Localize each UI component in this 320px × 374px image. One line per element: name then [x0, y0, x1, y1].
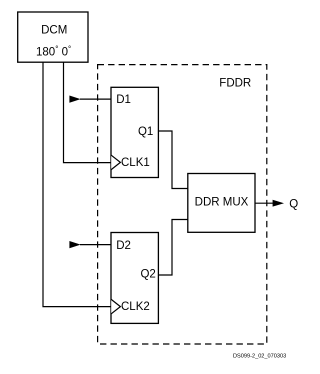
arrowhead D2 input: [69, 241, 80, 248]
wire Q1 to DDR MUX: [158, 131, 187, 189]
svg-text:D2: D2: [116, 240, 131, 252]
clock triangle FF1: [111, 155, 120, 169]
block DCM: [18, 12, 88, 62]
arrowhead D1 input: [69, 96, 80, 103]
svg-text:DCM: DCM: [41, 25, 67, 37]
wire Q2 to DDR MUX: [158, 220, 187, 276]
svg-text:DDR MUX: DDR MUX: [195, 196, 249, 208]
flip-flop FF2: [111, 233, 158, 324]
svg-text:180° 0°: 180° 0°: [36, 45, 71, 59]
wire D2 input: [80, 244, 111, 246]
svg-text:CLK2: CLK2: [121, 301, 150, 313]
svg-text:D1: D1: [116, 94, 131, 106]
wire DCM 0 output to CLK1: [64, 62, 111, 163]
svg-text:Q: Q: [289, 199, 298, 211]
flip-flop FF1: [111, 87, 158, 177]
svg-text:CLK1: CLK1: [121, 157, 150, 169]
wire Q output: [255, 202, 274, 204]
svg-text:Q1: Q1: [138, 126, 153, 138]
block DDR MUX: [188, 174, 255, 233]
clock triangle FF2: [111, 299, 120, 313]
wire DCM 180 output to CLK2: [43, 62, 111, 307]
dashed boundary FDDR: [98, 65, 267, 344]
wire D1 input: [80, 98, 111, 100]
svg-text:DS099-2_02_070303: DS099-2_02_070303: [233, 354, 286, 360]
arrowhead Q output: [273, 200, 284, 207]
svg-text:Q2: Q2: [140, 268, 155, 280]
svg-text:FDDR: FDDR: [219, 78, 251, 90]
